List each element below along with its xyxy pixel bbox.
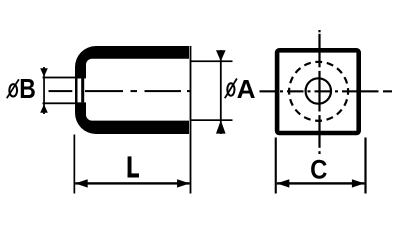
svg-text:B: B xyxy=(19,74,36,104)
svg-text:A: A xyxy=(237,74,256,104)
svg-text:C: C xyxy=(310,155,327,185)
